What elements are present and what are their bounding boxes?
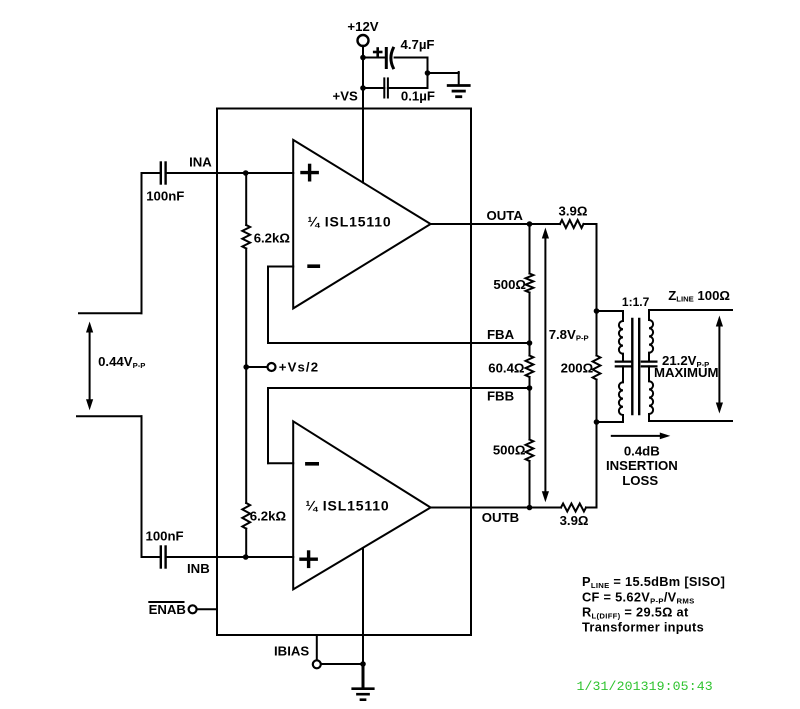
label node IBIAS (274, 644, 309, 659)
junction Vs/2 tap (243, 364, 249, 370)
resistor R5 60.4 (526, 356, 534, 378)
svg-text:100nF: 100nF (146, 528, 184, 543)
label LOSS (622, 473, 658, 488)
label 21.2Vp-p (662, 353, 709, 369)
wire FBB to R6 (529, 388, 531, 440)
junction transformer bottom (594, 419, 600, 425)
capacitor C4 100nF (INB) (161, 547, 166, 568)
transformer T1 core (632, 319, 639, 414)
svg-text:100nF: 100nF (146, 188, 184, 203)
label C3 value 100nF (146, 188, 184, 203)
label C1 value 4.7µF (401, 37, 435, 52)
wire OUTA to R3 (529, 224, 531, 274)
svg-text:6.2kΩ: 6.2kΩ (250, 509, 287, 524)
label ZLINE 100 ohm (668, 288, 730, 304)
wire INB input (142, 556, 161, 558)
wire FBA (268, 342, 530, 344)
wire T1 primary bottom lead (597, 415, 624, 422)
wire C1 right lead (395, 58, 428, 89)
capacitor C3 100nF (INA) (161, 163, 166, 184)
label R3 value 500Ω (493, 277, 526, 292)
resistor R3 500 (526, 274, 534, 293)
arrow source swing 0.44Vp-p (86, 322, 93, 411)
svg-text:500Ω: 500Ω (493, 277, 526, 292)
wire source top stub (79, 312, 142, 314)
terminal +Vs/2 (268, 363, 276, 371)
capacitor T1 secondary series (642, 362, 657, 367)
node +12V label (347, 19, 378, 34)
op-amp U2 body (293, 421, 430, 589)
ground top (448, 86, 469, 97)
resistor R7 3.9 (OUTA) (560, 220, 584, 228)
svg-text:INSERTION: INSERTION (606, 458, 678, 473)
svg-text:INB: INB (187, 561, 210, 576)
note transformer inputs (582, 620, 704, 635)
label R8 value 3.9Ω (560, 513, 589, 528)
svg-text:OUTA: OUTA (487, 208, 524, 223)
wire secondary bottom rail (649, 420, 732, 422)
svg-text:1:1.7: 1:1.7 (622, 295, 650, 309)
wire U1 - input (268, 266, 293, 268)
arrow line swing 21.2Vp-p max (716, 316, 723, 414)
label R9 value 200Ω (561, 361, 594, 376)
wire R7 to transformer (584, 224, 597, 311)
label node INA (189, 155, 212, 170)
wire C2 left lead (363, 87, 384, 89)
label node INB (187, 561, 210, 576)
amplifier block outline (217, 109, 471, 636)
wire OUTA (431, 223, 560, 225)
svg-text:FBA: FBA (487, 327, 515, 342)
svg-text:FBB: FBB (487, 389, 514, 404)
junction +12V/C1 (360, 55, 366, 61)
resistor R6 500 (526, 440, 534, 462)
transformer T1 secondary lower winding (649, 366, 653, 421)
wire IBIAS stub from block (316, 635, 318, 660)
svg-text:OUTB: OUTB (482, 510, 519, 525)
svg-text:LOSS: LOSS (622, 473, 658, 488)
wire +12V terminal to +VS rail (362, 46, 364, 109)
label C2 value 0.1µF (401, 89, 435, 104)
svg-text:¼ ISL15110: ¼ ISL15110 (308, 214, 392, 230)
wire R6 to OUTB (529, 461, 531, 508)
wire bias divider lower (245, 529, 247, 557)
svg-text:1/31/201319:05:43: 1/31/201319:05:43 (577, 679, 713, 694)
junction FBA/R5 (527, 340, 533, 346)
wire IBIAS from U2 (362, 548, 364, 664)
arrow differential swing 7.8Vp-p (542, 228, 549, 503)
junction INA/R1 (243, 170, 249, 176)
wire FBB (268, 387, 530, 389)
svg-text:6.2kΩ: 6.2kΩ (254, 230, 291, 245)
terminal +12V (358, 35, 369, 46)
label node ENAB (active low) (149, 602, 186, 617)
label node FBB (487, 389, 514, 404)
junction transformer top (594, 308, 600, 314)
label node FBA (487, 327, 515, 342)
label 0.44Vp-p (98, 354, 145, 370)
wire U2 feedback vertical (267, 388, 269, 463)
svg-text:500Ω: 500Ω (493, 442, 526, 457)
wire source bottom vertical (141, 416, 143, 557)
op-amp U1 body (293, 140, 430, 309)
wire T1 primary top lead (597, 311, 624, 321)
label U2 ¼ ISL15110 (306, 498, 390, 514)
wire R3 to FBA (529, 293, 531, 344)
label R2 value 6.2kΩ (250, 509, 287, 524)
junction decoupling/ground (425, 70, 431, 76)
wire OUTB (431, 507, 561, 509)
wire +VS supply into U1 (362, 109, 364, 183)
arrow insertion loss (612, 433, 671, 440)
label R1 value 6.2kΩ (254, 230, 291, 245)
capacitor C1 4.7µF (386, 48, 393, 68)
svg-text:200Ω: 200Ω (561, 361, 594, 376)
wire 200 ohm lower (596, 380, 598, 423)
transformer T1 secondary upper winding (649, 310, 653, 361)
wire INA input (142, 172, 161, 174)
wire secondary top rail (649, 309, 732, 311)
label R5 value 60.4Ω (488, 361, 525, 376)
ground bottom (353, 689, 374, 700)
capacitor C2 0.1µF (384, 78, 388, 97)
label MAXIMUM (654, 365, 718, 380)
wire C2 right lead (388, 87, 428, 89)
wire C4 to op-amp U2 + input (166, 556, 294, 558)
svg-text:+Vs/2: +Vs/2 (279, 360, 319, 375)
label U1 + input (302, 165, 317, 179)
svg-text:3.9Ω: 3.9Ω (560, 513, 589, 528)
svg-text:3.9Ω: 3.9Ω (559, 204, 588, 219)
wire bias divider middle (245, 249, 247, 504)
svg-text:+VS: +VS (333, 89, 358, 104)
wire R8 to transformer (586, 422, 597, 508)
label T1 ratio 1:1.7 (622, 295, 650, 309)
transformer T1 primary upper winding (619, 321, 623, 361)
junction OUTA/R3 (527, 221, 533, 227)
wire R5 to FBB (529, 377, 531, 388)
resistor R9 200 (593, 356, 601, 380)
label R7 value 3.9Ω (559, 204, 588, 219)
svg-text:4.7µF: 4.7µF (401, 37, 435, 52)
wire ENAB to block (197, 608, 217, 610)
svg-text:ENAB: ENAB (149, 602, 186, 617)
wire ground stem (362, 664, 365, 688)
note R_L(DIFF) (582, 605, 689, 621)
note CF (582, 589, 695, 605)
label U2 + input (301, 552, 316, 566)
wire IBIAS to ground net (321, 663, 363, 665)
label node +Vs/2 (279, 360, 319, 375)
note P_LINE (582, 574, 725, 590)
junction +VS/C2 (360, 85, 366, 91)
wire FBA to R5 (529, 343, 531, 356)
svg-text:0.4dB: 0.4dB (624, 443, 660, 458)
label C4 value 100nF (146, 528, 184, 543)
wire 200 ohm upper (596, 311, 598, 356)
terminal IBIAS (313, 660, 321, 668)
resistor R8 3.9 (OUTB) (561, 504, 586, 512)
wire C1 left lead (363, 57, 385, 59)
svg-text:¼ ISL15110: ¼ ISL15110 (306, 498, 390, 514)
wire to top ground (428, 72, 459, 84)
wire U1 feedback vertical (267, 267, 269, 344)
resistor R1 6.2k (242, 225, 250, 249)
wire source top vertical (141, 173, 143, 313)
capacitor T1 primary series (616, 362, 631, 367)
label 7.8Vp-p (549, 327, 589, 343)
wire U2 - input (268, 462, 293, 464)
wire bias divider upper (245, 173, 247, 225)
svg-text:+12V: +12V (347, 19, 378, 34)
svg-text:0.1µF: 0.1µF (401, 89, 435, 104)
wire C3 to op-amp U1 + input (166, 172, 294, 174)
svg-text:IBIAS: IBIAS (274, 644, 309, 659)
svg-text:Transformer inputs: Transformer inputs (582, 620, 704, 635)
label U2 - input (307, 462, 317, 466)
junction OUTB/R4 (527, 505, 533, 511)
wire Vs/2 stub (246, 366, 267, 368)
label net +VS (333, 89, 358, 104)
resistor R2 6.2k (242, 503, 250, 529)
svg-text:MAXIMUM: MAXIMUM (654, 365, 718, 380)
label node OUTB (482, 510, 519, 525)
timestamp overlay (577, 679, 713, 694)
junction FBB/R6 (527, 385, 533, 391)
junction IBIAS/ground (360, 661, 366, 667)
label U1 - input (309, 264, 318, 268)
svg-text:60.4Ω: 60.4Ω (488, 361, 525, 376)
svg-text:INA: INA (189, 155, 212, 170)
label C1 polarity + (374, 49, 381, 56)
terminal ENAB (189, 605, 197, 613)
wire source bottom stub (77, 415, 142, 417)
label node OUTA (487, 208, 524, 223)
junction INB/R2 (243, 554, 249, 560)
label 0.4dB (624, 443, 660, 458)
transformer T1 primary lower winding (619, 366, 623, 415)
label INSERTION (606, 458, 678, 473)
label U1 ¼ ISL15110 (308, 214, 392, 230)
label R6 value 500Ω (493, 442, 526, 457)
